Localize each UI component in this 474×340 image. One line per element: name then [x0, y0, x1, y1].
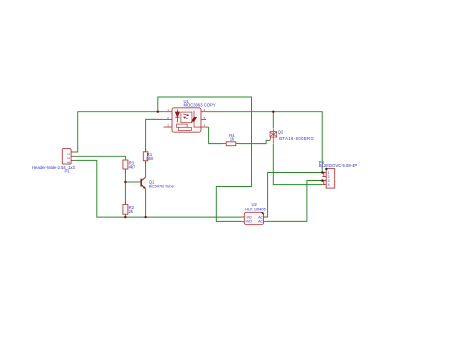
svg-text:MOC3063 COPY: MOC3063 COPY [184, 103, 216, 108]
svg-text:BTA16-600BRG: BTA16-600BRG [279, 136, 314, 141]
svg-text:AC: AC [258, 220, 263, 224]
svg-text:BC547B Tube: BC547B Tube [149, 184, 175, 189]
svg-text:-VO: -VO [246, 215, 252, 219]
svg-text:BL2EDGVC-5.08-4P: BL2EDGVC-5.08-4P [319, 163, 358, 168]
svg-text:4k7: 4k7 [129, 164, 136, 169]
svg-text:+VO: +VO [245, 220, 252, 224]
svg-text:AC: AC [258, 215, 263, 219]
svg-text:HLK 10M05: HLK 10M05 [245, 206, 266, 211]
svg-text:3: 3 [66, 161, 70, 163]
svg-text:1: 1 [66, 153, 70, 155]
svg-text:560: 560 [146, 156, 154, 161]
svg-text:P1: P1 [65, 169, 71, 174]
svg-text:Q2: Q2 [278, 130, 284, 135]
svg-text:4: 4 [328, 183, 330, 187]
svg-text:2: 2 [66, 157, 70, 159]
